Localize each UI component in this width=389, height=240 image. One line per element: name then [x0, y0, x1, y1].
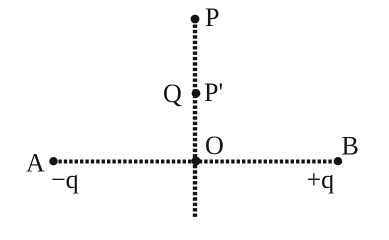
svg-text:−q: −q — [51, 165, 79, 194]
svg-text:O: O — [205, 131, 224, 160]
svg-text:+q: +q — [307, 165, 335, 194]
svg-text:A: A — [26, 148, 45, 177]
svg-text:Q: Q — [163, 79, 182, 108]
point A dot (charge -q) — [49, 157, 57, 165]
svg-text:B: B — [342, 132, 359, 161]
point B dot (charge +q) — [334, 157, 342, 165]
vertical dotted axis line through O — [193, 25, 197, 219]
point O dot (origin) — [192, 157, 201, 166]
svg-text:P': P' — [204, 78, 223, 107]
point P dot — [191, 15, 200, 24]
horizontal dotted line A to B — [53, 160, 338, 164]
svg-text:P: P — [205, 3, 219, 32]
point Q / P' dot — [192, 89, 201, 98]
